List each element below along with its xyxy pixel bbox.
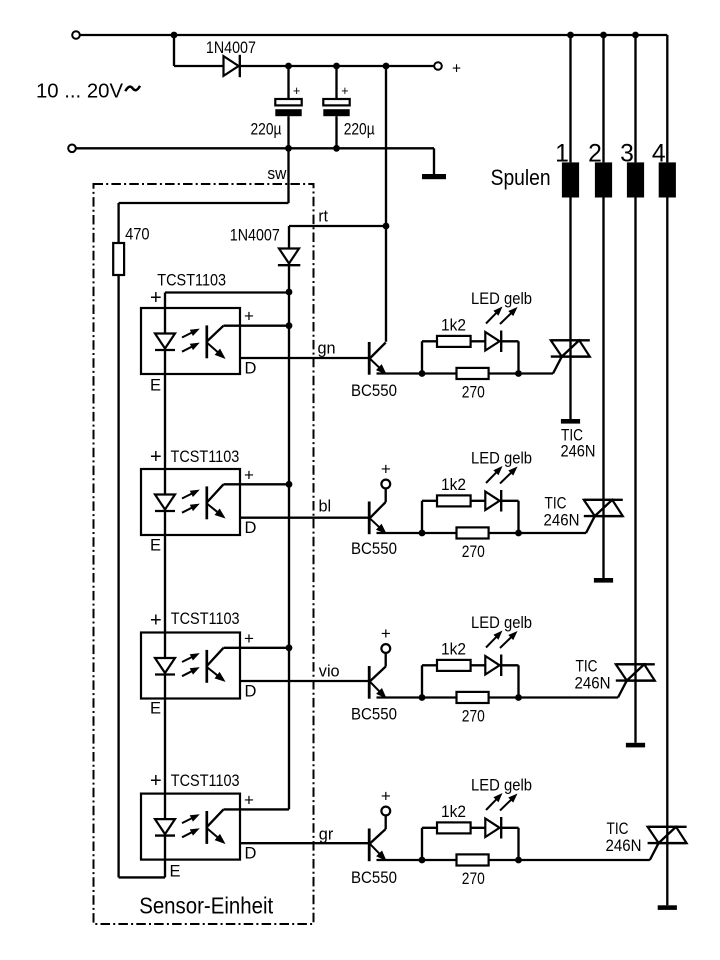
svg-text:246N: 246N xyxy=(606,837,642,855)
svg-text:1k2: 1k2 xyxy=(441,803,466,821)
svg-text:TCST1103: TCST1103 xyxy=(157,272,226,290)
svg-text:+: + xyxy=(452,61,461,78)
svg-text:1k2: 1k2 xyxy=(441,641,466,659)
svg-text:bl: bl xyxy=(319,498,332,516)
svg-text:TIC: TIC xyxy=(545,495,567,513)
svg-text:246N: 246N xyxy=(561,443,596,461)
svg-text:1: 1 xyxy=(555,141,569,168)
svg-text:gn: gn xyxy=(318,340,336,358)
svg-text:D: D xyxy=(245,359,257,377)
svg-text:+: + xyxy=(381,624,391,643)
svg-text:LED gelb: LED gelb xyxy=(471,614,532,632)
svg-text:sw: sw xyxy=(267,165,286,183)
svg-text:3: 3 xyxy=(620,141,634,168)
svg-text:+: + xyxy=(150,610,162,632)
svg-text:1N4007: 1N4007 xyxy=(206,39,256,57)
svg-text:270: 270 xyxy=(462,384,485,402)
svg-text:246N: 246N xyxy=(575,674,611,692)
svg-text:LED gelb: LED gelb xyxy=(471,777,532,795)
svg-text:E: E xyxy=(150,536,161,554)
svg-text:270: 270 xyxy=(462,870,485,888)
svg-text:220µ: 220µ xyxy=(251,121,282,139)
svg-text:BC550: BC550 xyxy=(351,382,397,400)
svg-text:+: + xyxy=(150,287,162,309)
svg-text:+: + xyxy=(150,446,162,468)
svg-text:BC550: BC550 xyxy=(351,706,397,724)
svg-text:rt: rt xyxy=(318,207,328,225)
svg-text:+: + xyxy=(293,84,300,98)
svg-text:vio: vio xyxy=(319,663,340,681)
svg-text:1k2: 1k2 xyxy=(441,476,466,494)
svg-text:LED gelb: LED gelb xyxy=(471,450,532,468)
svg-text:4: 4 xyxy=(652,141,666,168)
svg-text:246N: 246N xyxy=(544,511,580,529)
svg-text:E: E xyxy=(170,863,181,881)
svg-text:+: + xyxy=(244,465,254,484)
svg-text:+: + xyxy=(244,629,254,648)
svg-text:D: D xyxy=(245,682,257,700)
svg-text:gr: gr xyxy=(319,826,334,844)
svg-text:10 ... 20V: 10 ... 20V xyxy=(36,80,123,103)
svg-text:TCST1103: TCST1103 xyxy=(171,610,240,628)
svg-text:270: 270 xyxy=(462,543,485,561)
svg-text:BC550: BC550 xyxy=(351,540,397,558)
svg-text:+: + xyxy=(244,790,254,809)
svg-text:TCST1103: TCST1103 xyxy=(171,448,240,466)
svg-text:1k2: 1k2 xyxy=(441,317,466,335)
svg-text:+: + xyxy=(341,84,348,98)
svg-text:+: + xyxy=(150,770,162,792)
svg-text:220µ: 220µ xyxy=(344,121,375,139)
svg-text:Spulen: Spulen xyxy=(491,165,551,190)
svg-text:TIC: TIC xyxy=(576,658,598,676)
svg-text:TCST1103: TCST1103 xyxy=(171,772,240,790)
svg-text:D: D xyxy=(245,845,257,863)
svg-text:E: E xyxy=(150,377,161,395)
svg-text:D: D xyxy=(245,519,257,537)
svg-text:Sensor-Einheit: Sensor-Einheit xyxy=(139,893,273,919)
svg-text:LED gelb: LED gelb xyxy=(471,290,532,308)
svg-text:E: E xyxy=(150,700,161,718)
svg-text:TIC: TIC xyxy=(607,820,629,838)
svg-text:2: 2 xyxy=(588,141,602,168)
svg-text:BC550: BC550 xyxy=(351,869,397,887)
svg-text:+: + xyxy=(381,460,391,479)
svg-text:270: 270 xyxy=(462,708,485,726)
svg-text:+: + xyxy=(381,787,391,806)
svg-text:470: 470 xyxy=(125,226,150,244)
svg-text:+: + xyxy=(244,307,254,326)
svg-text:1N4007: 1N4007 xyxy=(230,226,280,244)
